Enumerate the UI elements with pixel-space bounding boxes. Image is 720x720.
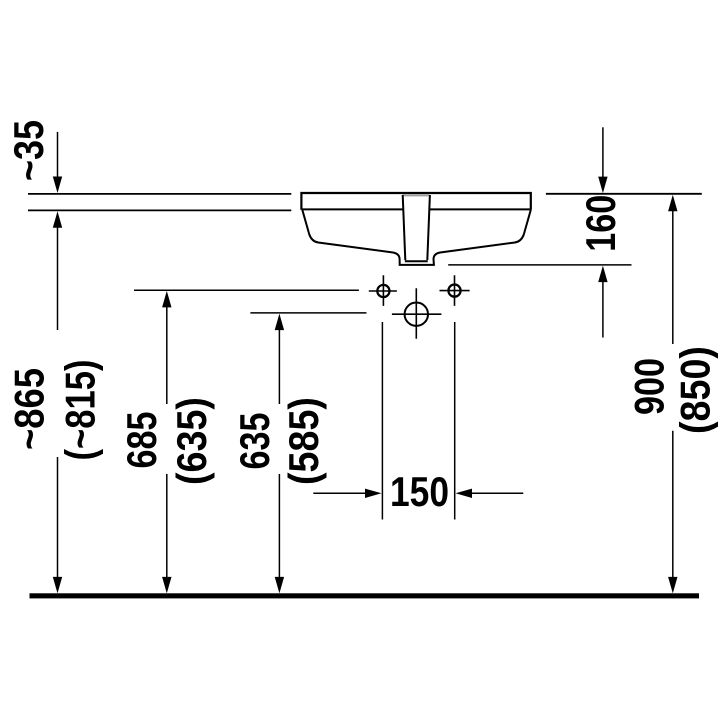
dimension 685 arrow down bbox=[162, 577, 171, 594]
extension line left for 150 bbox=[381, 322, 383, 520]
dimension 685 arrow up bbox=[162, 291, 171, 308]
svg-text:(585): (585) bbox=[280, 397, 327, 485]
floor line bbox=[30, 593, 700, 598]
right faucet hole crosshair bbox=[440, 275, 470, 306]
dimension ~865 arrow down bbox=[53, 577, 62, 594]
dimension 150 right tail line bbox=[469, 492, 523, 494]
dimension 635 line upper bbox=[278, 328, 280, 404]
svg-text:635: 635 bbox=[231, 413, 278, 470]
washbasin rim bbox=[301, 193, 530, 210]
dimension 150 arrow right bbox=[365, 489, 382, 498]
dimension 685 line lower bbox=[166, 474, 168, 579]
svg-text:~865: ~865 bbox=[5, 368, 52, 450]
dimension ~865 line upper bbox=[57, 225, 59, 330]
dimension 160 line lower bbox=[602, 280, 604, 338]
dimension 635 line lower bbox=[278, 474, 280, 579]
dimension 150 arrow left bbox=[456, 489, 473, 498]
svg-text:150: 150 bbox=[390, 468, 449, 515]
dimension ~865 line lower bbox=[57, 457, 59, 579]
drain channel bottom bbox=[405, 260, 428, 262]
extension line right for 150 bbox=[454, 322, 456, 520]
right faucet hole circle bbox=[448, 285, 460, 297]
dimension 900 arrow down bbox=[668, 577, 677, 594]
countertop line right bbox=[546, 193, 702, 195]
svg-text:(~815): (~815) bbox=[56, 360, 103, 461]
dimension ~35 line bbox=[57, 132, 59, 179]
dimension ~865 arrow up bbox=[53, 211, 62, 228]
dimension 160 arrow up bbox=[598, 266, 607, 283]
left faucet hole crosshair bbox=[369, 275, 397, 306]
drain channel right wall bbox=[427, 195, 430, 260]
svg-text:~35: ~35 bbox=[5, 120, 52, 181]
dimension 900 line lower bbox=[672, 431, 674, 579]
dimension 160 line upper bbox=[602, 127, 604, 179]
countertop top line left bbox=[28, 193, 291, 195]
dimension 635 arrow down bbox=[275, 577, 284, 594]
washbasin outer bowl outline bbox=[302, 210, 531, 265]
center drain hole circle bbox=[405, 303, 428, 326]
left faucet hole circle bbox=[377, 285, 389, 297]
dimension 900 line upper bbox=[672, 209, 674, 344]
dimension ~35 arrow down bbox=[53, 177, 62, 194]
washbasin rim bottom joint line bbox=[301, 208, 530, 210]
dimension 635 arrow up bbox=[275, 314, 284, 331]
drain channel left wall bbox=[403, 195, 406, 260]
dimension 900 arrow up bbox=[668, 195, 677, 212]
dimension 150 left tail line bbox=[313, 492, 368, 494]
reference line for 685 dimension bbox=[134, 289, 359, 291]
reference line for 635 dimension bbox=[250, 312, 366, 314]
dimension 160 arrow down bbox=[598, 177, 607, 194]
countertop bottom line left bbox=[28, 209, 291, 211]
svg-text:160: 160 bbox=[577, 195, 624, 252]
center drain hole crosshair bbox=[392, 288, 442, 339]
svg-text:685: 685 bbox=[118, 412, 165, 469]
svg-text:(635): (635) bbox=[168, 397, 215, 485]
drain channel gray top bar bbox=[403, 194, 429, 196]
svg-text:(850): (850) bbox=[672, 346, 719, 434]
dimension 685 line upper bbox=[166, 305, 168, 404]
reference line for drain bottom / 160 dimension bbox=[448, 264, 631, 266]
svg-text:900: 900 bbox=[626, 358, 673, 415]
